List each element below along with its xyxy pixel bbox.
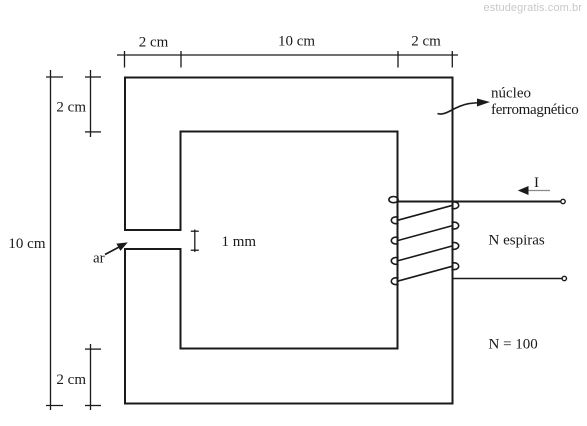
svg-text:2 cm: 2 cm [56, 100, 86, 116]
current arrow line [526, 190, 550, 192]
upper-left dim tick top [85, 76, 101, 78]
coil left arc 3 [391, 258, 398, 265]
left dim tick bottom [46, 405, 63, 407]
air gap top face line [124, 229, 182, 231]
svg-text:2 cm: 2 cm [411, 34, 441, 50]
top dim tick at outer-right [451, 51, 453, 68]
coil top lead wire [397, 201, 561, 203]
upper-left 2 cm dimension line [90, 70, 92, 137]
svg-text:1 mm: 1 mm [222, 234, 257, 250]
coil top lead terminal [561, 199, 565, 203]
svg-text:N = 100: N = 100 [489, 337, 538, 353]
coil right arc 2 [452, 222, 459, 229]
nucleo callout arrow (curved) [438, 103, 481, 114]
coil bottom lead terminal [562, 276, 566, 280]
svg-text:ar: ar [93, 251, 105, 267]
left 10 cm dimension line [50, 70, 52, 410]
lower-left dim tick top [85, 348, 101, 350]
coil left arc 4 [391, 278, 398, 285]
coil left arc 1 [391, 217, 398, 224]
coil left arc 2 [391, 237, 398, 244]
coil bottom lead wire [453, 278, 563, 280]
svg-text:N espiras: N espiras [489, 233, 545, 249]
core inner window outline (with air-gap break in left leg) [181, 132, 398, 349]
coil turn 2 diagonal [398, 226, 453, 241]
svg-text:I: I [534, 175, 539, 191]
current arrow head [518, 186, 529, 195]
lower-left dim tick bottom [85, 405, 101, 407]
ar arrow [105, 246, 121, 255]
left dim tick top [46, 76, 63, 78]
svg-text:10 cm: 10 cm [8, 236, 45, 252]
coil turn 4 diagonal [398, 266, 453, 281]
upper-left dim tick bottom [85, 131, 101, 133]
top dim tick at inner-left [180, 51, 182, 68]
lower-left 2 cm dimension line [90, 344, 92, 410]
coil turn 3 diagonal [398, 246, 453, 261]
coil right arc 1 [452, 202, 459, 209]
svg-text:10 cm: 10 cm [278, 34, 315, 50]
coil start loop (left) [389, 197, 398, 203]
svg-text:2 cm: 2 cm [56, 372, 86, 388]
top dimension line [117, 54, 458, 56]
coil right arc 3 [452, 243, 459, 250]
core outer outline (with air-gap break in left leg) [125, 78, 453, 404]
coil right arc 4 [452, 263, 459, 270]
coil turn 1 diagonal [398, 205, 453, 220]
svg-text:ferromagnético: ferromagnético [491, 102, 578, 118]
svg-text:núcleo: núcleo [491, 86, 531, 102]
top dim tick at inner-right [397, 51, 399, 68]
svg-text:2 cm: 2 cm [139, 35, 169, 51]
air gap 1 mm dimension marker [194, 230, 196, 253]
air gap bottom face line [124, 248, 182, 250]
svg-text:estudegratis.com.br: estudegratis.com.br [484, 2, 583, 14]
top dim tick at outer-left [124, 51, 126, 68]
